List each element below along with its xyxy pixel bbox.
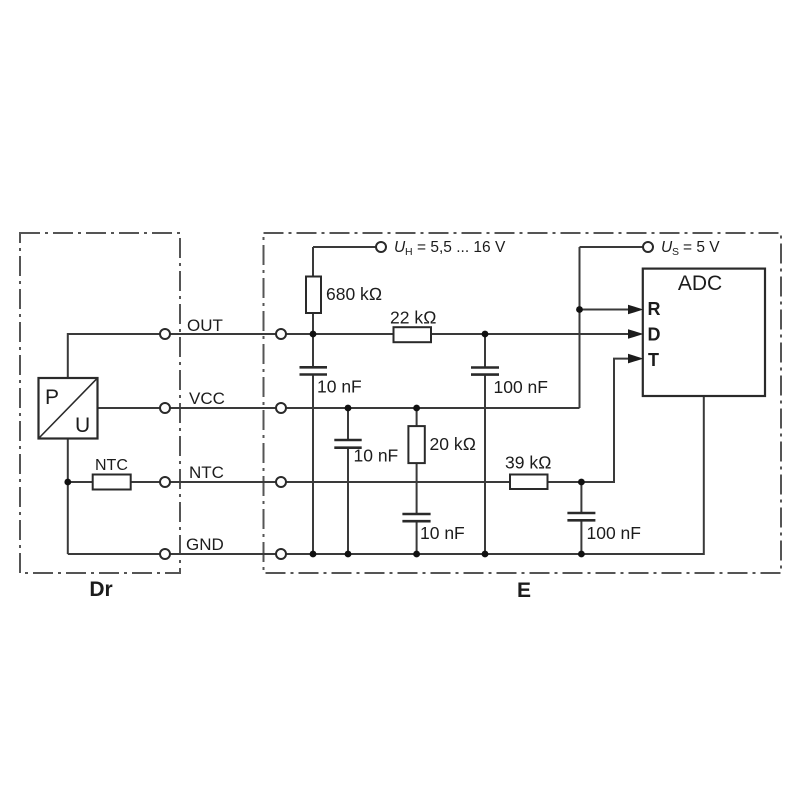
terminal VCC ECU side (276, 403, 286, 413)
node dot GND x416 (413, 551, 420, 558)
svg-text:22 kΩ: 22 kΩ (390, 308, 437, 328)
wire 20k/10n vertical x416 lower (416, 521, 418, 554)
node dot OUT/100n (482, 331, 489, 338)
resistor NTC (thermistor) (93, 457, 131, 490)
wire OUT filter vertical x313 upper (312, 247, 314, 367)
node dot GND x348 (345, 551, 352, 558)
sensor U1 P/U box (39, 378, 98, 439)
wire OUT net: sensor top to ADC D input (68, 334, 639, 378)
svg-text:680 kΩ: 680 kΩ (326, 284, 382, 304)
svg-text:R: R (648, 299, 661, 319)
terminal OUT sensor side (160, 329, 170, 339)
terminal GND sensor side (160, 549, 170, 559)
svg-text:Dr: Dr (89, 578, 112, 601)
wire 100n vertical x485 lower (484, 375, 486, 554)
terminal OUT ECU side (276, 329, 286, 339)
node dot NTC/100n (578, 479, 585, 486)
wire OUT filter vertical x313 lower (312, 375, 314, 555)
resistor 20 kOhm (408, 426, 476, 463)
enclosure box E (ECU) (264, 233, 782, 573)
wire 100n vertical x581 upper (580, 482, 582, 513)
svg-text:D: D (648, 325, 661, 345)
node dot VCC/10n (345, 405, 352, 412)
capacitor C5 100 nF (T node) (567, 513, 641, 543)
arrow into pin D (628, 329, 644, 339)
svg-text:S: S (672, 246, 679, 258)
wire VCC cap vertical x348 upper (347, 408, 349, 440)
svg-text:P: P (45, 386, 59, 409)
terminal NTC ECU side (276, 477, 286, 487)
svg-text:100 nF: 100 nF (494, 377, 548, 397)
svg-text:= 5,5 ... 16 V: = 5,5 ... 16 V (417, 239, 506, 256)
wire VCC cap vertical x348 lower (347, 448, 349, 554)
wire NTC net: junction to 39k then corner up to T (68, 359, 639, 482)
wire R input branch (580, 309, 640, 311)
svg-text:10 nF: 10 nF (354, 446, 399, 466)
terminal GND ECU side (276, 549, 286, 559)
svg-text:GND: GND (186, 535, 224, 554)
node dot OUT/680k (310, 331, 317, 338)
node dot R branch (576, 306, 583, 313)
terminal NTC sensor side (160, 477, 170, 487)
wire supply vertical US to VCC (579, 247, 581, 408)
wire 100n vertical x581 lower (580, 520, 582, 554)
wire 20k/10n vertical x416 upper (416, 408, 418, 514)
svg-text:ADC: ADC (678, 272, 722, 295)
wire sensor left vertical (NTC/GND leg) (67, 439, 69, 555)
enclosure box Dr (sensor) (20, 233, 180, 573)
terminal US supply (643, 242, 653, 252)
node dot GND x313 (310, 551, 317, 558)
wire GND net: sensor bottom rail to ADC bottom (68, 396, 704, 554)
node dot GND x485 (482, 551, 489, 558)
resistor 22 kOhm (390, 308, 437, 343)
svg-text:VCC: VCC (189, 389, 225, 408)
node dot GND x581 (578, 551, 585, 558)
svg-text:E: E (517, 579, 531, 602)
arrow into pin T (628, 354, 644, 364)
capacitor C3 10 nF (below 20k) (402, 514, 464, 543)
svg-text:= 5 V: = 5 V (683, 239, 720, 256)
arrow into pin R (628, 305, 644, 315)
svg-text:OUT: OUT (187, 316, 223, 335)
ADC block U2 (643, 269, 765, 396)
svg-text:10 nF: 10 nF (420, 523, 465, 543)
svg-text:10 nF: 10 nF (317, 377, 362, 397)
resistor 39 kOhm (505, 453, 552, 490)
wire UH rail to 680k node (313, 246, 377, 248)
svg-text:39 kΩ: 39 kΩ (505, 453, 552, 473)
wire VCC net: sensor right to supply vertical (98, 407, 580, 409)
wire 100n vertical x485 upper (484, 334, 486, 368)
node dot VCC/20k (413, 405, 420, 412)
capacitor C2 10 nF (VCC node) (334, 440, 398, 466)
resistor 680 kOhm (306, 277, 382, 314)
svg-text:H: H (405, 246, 413, 258)
svg-text:U: U (75, 414, 90, 437)
terminal UH supply (376, 242, 386, 252)
svg-text:20 kΩ: 20 kΩ (430, 434, 477, 454)
capacitor C1 10 nF (OUT node) (300, 367, 362, 396)
svg-text:NTC: NTC (189, 463, 224, 482)
node dot sensor NTC junction (64, 479, 71, 486)
capacitor C4 100 nF (after 22k) (471, 368, 548, 398)
svg-text:NTC: NTC (95, 457, 128, 474)
svg-text:100 nF: 100 nF (587, 523, 641, 543)
wire US rail to supply vertical (580, 246, 644, 248)
terminal VCC sensor side (160, 403, 170, 413)
svg-text:T: T (648, 350, 659, 370)
